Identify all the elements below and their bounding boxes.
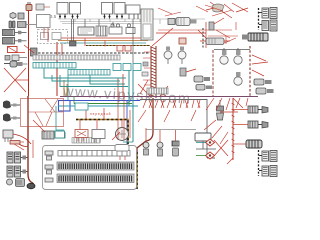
lamp circle right mid B <box>234 48 242 64</box>
connector ladder pair right top A <box>259 8 277 19</box>
white box top-left <box>37 15 51 28</box>
connector comb left upper <box>3 30 27 36</box>
small box in dashed B <box>52 33 61 40</box>
ignition coil tall box <box>141 9 153 40</box>
wire verticals from top boxes <box>60 18 133 63</box>
switch glyph left B <box>3 114 20 122</box>
wire red tree right <box>252 55 268 76</box>
wire teal link mid <box>67 75 69 100</box>
screw bottom-left <box>7 179 13 185</box>
sensor block <box>18 13 24 19</box>
red box outline dash area <box>21 99 64 127</box>
connector comb pair bottom-left lower <box>7 166 28 177</box>
wire red bus left vertical <box>29 8 58 96</box>
wire red into panel <box>120 144 125 160</box>
lamp glyph center pair B <box>178 47 186 65</box>
relay bottom-left mid <box>3 130 13 142</box>
plug glyphs center low <box>194 76 212 90</box>
cylinder component top right <box>200 38 230 45</box>
wire red fanout right mid top <box>206 98 248 112</box>
wire black dashed bus middle-left <box>38 52 150 54</box>
connector comb left lower <box>3 38 27 45</box>
comb strip teal A <box>33 63 76 69</box>
comb block small top <box>96 26 107 36</box>
connector ladder pair bottom right B <box>259 166 277 177</box>
wire teal bottom links <box>56 106 133 142</box>
wire red extra top right tree <box>205 4 234 18</box>
comb strip small center <box>147 88 168 94</box>
wire red curls left-bottom <box>13 130 31 147</box>
wire red X bottom center <box>214 140 228 156</box>
lamp glyph center pair A <box>164 47 172 65</box>
box with wire bottom center <box>195 133 216 149</box>
part dark mid-left <box>31 48 38 56</box>
components top-left item row <box>9 13 36 29</box>
wire teal verticals <box>129 64 133 142</box>
striped plug <box>18 22 27 28</box>
watermark www text <box>62 84 192 108</box>
fuse red box left <box>8 47 26 53</box>
connector teal boxes row <box>113 64 141 71</box>
comb strip row1 sparse <box>58 151 130 157</box>
wire dark red vertical right of harness <box>212 50 214 96</box>
relay box K2 top <box>70 3 81 19</box>
relay box K4 top <box>114 3 125 19</box>
component red small top center <box>179 38 186 44</box>
wire red top-left verticals <box>24 28 48 53</box>
wire black dashed vertical far right top <box>258 8 260 30</box>
wire red verticals center-left <box>62 44 123 96</box>
relay small mid B <box>92 130 105 143</box>
sensor glyph center <box>180 68 196 76</box>
wire red rain center mid <box>143 100 200 108</box>
wire harness turn into box <box>137 98 153 152</box>
wire multicolour band top <box>56 38 150 47</box>
wire teal L runs <box>44 68 128 87</box>
resistor pack right top <box>242 33 268 41</box>
relay box K3 top <box>102 3 113 19</box>
sensor top right mid <box>209 18 224 30</box>
plug set right mid A <box>233 106 268 113</box>
wire black dashed vertical far right bottom <box>258 150 260 176</box>
comb strip gray long <box>33 55 120 60</box>
plug glyphs right low <box>254 79 274 94</box>
spark plug glyph top center <box>168 18 197 26</box>
wire red right column extras <box>204 120 233 164</box>
connector comb pair bottom-left upper <box>7 152 28 163</box>
bolt glyph hanging center-right <box>217 100 224 120</box>
striped cylinder right mid <box>233 140 262 148</box>
small parts left y55-62 <box>5 55 27 61</box>
wire harness hatched vertical center <box>151 46 156 98</box>
wire black dashed top center <box>202 28 204 48</box>
component red bar bottom-left <box>10 141 20 145</box>
relay box K1 top <box>57 3 68 19</box>
connector ladder pair bottom right A <box>259 151 277 162</box>
wire olive dashed vertical at box edge <box>136 152 138 189</box>
comb strip above panel <box>72 138 100 144</box>
wire red drops mid <box>80 108 122 129</box>
wire dark red bus bottom-left vertical <box>28 96 31 182</box>
component small top-left extra <box>36 4 50 10</box>
cluster gray mid-low left <box>42 131 65 139</box>
motor round mid <box>116 128 129 141</box>
switch glyph left A <box>3 101 20 109</box>
comb strip row2 dense <box>57 162 134 170</box>
wire top gray bus <box>58 19 205 24</box>
relay dashed box mid-left <box>38 30 68 44</box>
striped cylinder bottom right top <box>245 142 247 144</box>
plug with cap left y60 <box>4 61 28 67</box>
diamond flasher B <box>196 152 215 159</box>
wire bar above bulbs <box>146 129 196 131</box>
connector small teal box at panel top <box>55 131 65 138</box>
lamp circle right mid A <box>220 48 228 64</box>
wire green mid link <box>73 96 75 104</box>
unit box on bus <box>75 103 88 110</box>
cylinder bottom-left <box>16 179 25 187</box>
wire gray vertical center-right <box>140 100 215 159</box>
connector panel box bottom <box>43 146 137 190</box>
wire orange verticals left-mid <box>64 80 67 96</box>
wire red horizontals top right <box>158 22 238 44</box>
wire red web top extra <box>158 6 236 44</box>
wire red bottom-left extras <box>10 120 45 158</box>
connector ladder pair right top B <box>259 20 277 31</box>
bulb glyph bottom center A <box>143 128 149 155</box>
relay box K5 wide top <box>126 5 140 19</box>
bulb glyph bottom center B <box>157 130 163 156</box>
wire olive dashed bus <box>76 120 128 145</box>
horn component top right <box>206 4 224 12</box>
cap under vertical pair <box>70 41 77 46</box>
svg-text:3.5: 3.5 <box>50 14 57 19</box>
fuse boxes red pair <box>117 46 131 52</box>
red X wires left <box>4 68 28 92</box>
plug set right mid B <box>233 121 268 128</box>
svg-text:n e p e д н u й: n e p e д н u й <box>90 112 111 116</box>
comb strip teal B <box>68 70 110 76</box>
wire red extra near panel <box>112 96 130 140</box>
unit box top middle <box>109 24 135 34</box>
small box in dashed <box>41 33 49 40</box>
wire purple horizontal mid <box>60 96 258 98</box>
component top item with red lead <box>26 3 32 11</box>
wire red vertical right mid <box>232 98 235 160</box>
connector plugs inside panel left <box>45 151 53 182</box>
wire green bus <box>74 103 132 105</box>
wire red fan center low <box>138 80 168 96</box>
wire cyan bus <box>58 105 138 107</box>
diamond flasher A <box>196 139 215 146</box>
wire olive dashed top band <box>86 45 150 47</box>
wire red mid extras <box>138 110 196 122</box>
wire top right mid connect <box>214 49 250 51</box>
bulb glyph bottom center C <box>172 130 179 156</box>
relay small mid A <box>75 130 88 142</box>
nut <box>10 13 16 19</box>
vertical plug pair <box>9 21 12 28</box>
wire blue bus <box>59 101 141 145</box>
component bits left of harness <box>142 52 151 85</box>
connector small box in panel <box>115 145 129 152</box>
battery terminal foot <box>27 182 35 189</box>
radio unit box <box>78 27 94 35</box>
wire red top center fan <box>152 2 248 48</box>
lamp circle right mid C <box>234 72 242 85</box>
wire dark dashed vertical right top <box>249 46 251 96</box>
comb strip row3 dense <box>57 174 134 183</box>
